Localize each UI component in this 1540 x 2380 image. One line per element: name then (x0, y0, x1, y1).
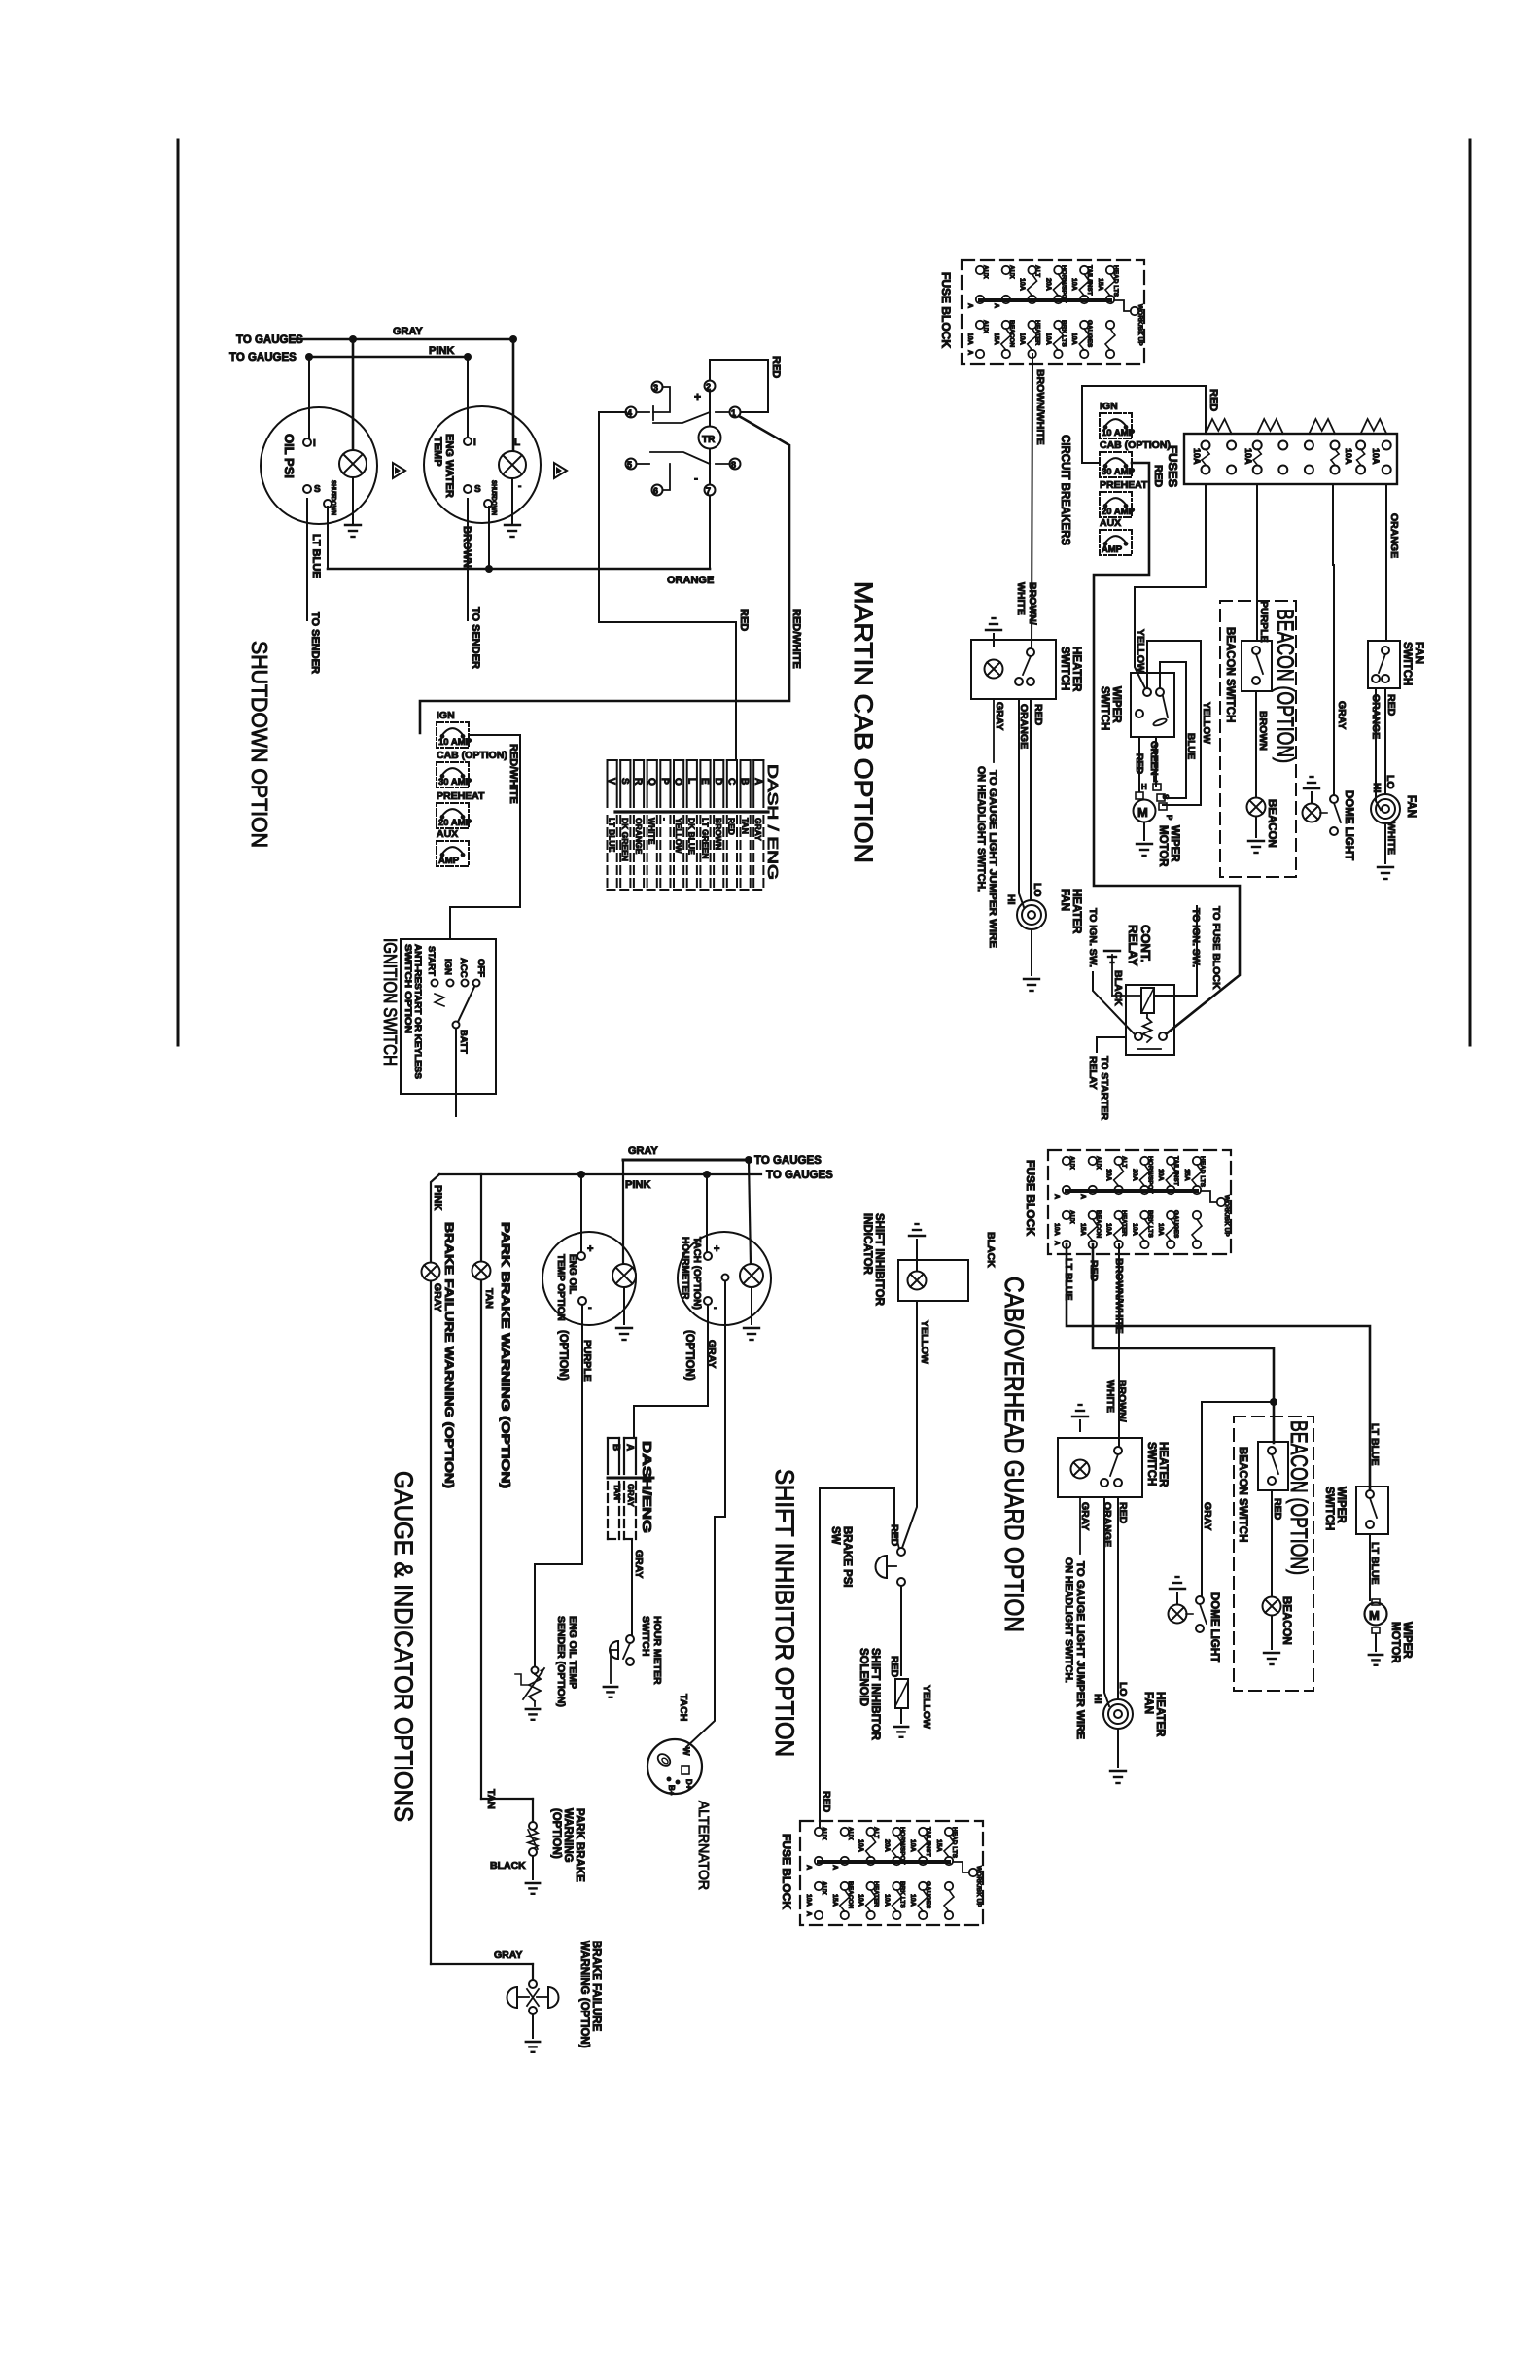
svg-text:BATT: BATT (458, 1030, 469, 1054)
svg-text:IGN: IGN (442, 959, 453, 975)
svg-text:+: + (714, 1243, 719, 1255)
svg-text:M: M (1369, 1608, 1380, 1623)
svg-text:AUX: AUX (821, 1827, 827, 1840)
svg-text:15A: 15A (1079, 1223, 1086, 1236)
svg-text:AMP: AMP (1102, 544, 1123, 555)
svg-text:AUX: AUX (1068, 1156, 1075, 1170)
svg-text:10A: 10A (1157, 1169, 1164, 1181)
svg-text:HEATER: HEATER (1070, 647, 1082, 692)
svg-text:I: I (473, 437, 476, 448)
svg-text:10 AMP: 10 AMP (1102, 428, 1136, 438)
svg-text:BROWN/: BROWN/ (1116, 1380, 1128, 1422)
svg-text:A: A (624, 1444, 635, 1451)
svg-text:20A: 20A (1044, 278, 1051, 291)
svg-text:(OPTION): (OPTION) (557, 1330, 569, 1381)
svg-text:GRAY: GRAY (1336, 701, 1347, 729)
svg-text:GRAY: GRAY (432, 1283, 443, 1312)
svg-text:HI: HI (1092, 1694, 1103, 1704)
svg-text:RELAY: RELAY (1087, 1056, 1099, 1090)
svg-text:WIPER: WIPER (1169, 825, 1180, 862)
svg-text:10A: 10A (1243, 448, 1253, 465)
svg-text:TO STARTER: TO STARTER (1099, 1056, 1110, 1121)
svg-text:CIRCUIT BREAKERS: CIRCUIT BREAKERS (1059, 435, 1073, 545)
svg-text:I: I (313, 438, 316, 449)
svg-text:SHUTDOWN: SHUTDOWN (330, 480, 336, 515)
svg-text:CAB (OPTION): CAB (OPTION) (1100, 439, 1171, 451)
svg-text:PARK BRAKE WARNING (OPTION): PARK BRAKE WARNING (OPTION) (499, 1222, 510, 1488)
svg-text:2: 2 (706, 382, 711, 392)
svg-text:10A: 10A (1105, 1223, 1112, 1236)
svg-text:YELLOW: YELLOW (919, 1320, 930, 1364)
svg-text:FUSE BLOCK: FUSE BLOCK (939, 272, 953, 348)
svg-text:GRAY: GRAY (494, 1949, 522, 1961)
svg-text:HEATER: HEATER (873, 1881, 880, 1907)
svg-text:BEACON (OPTION): BEACON (OPTION) (1285, 1420, 1312, 1575)
svg-text:-: - (714, 1302, 717, 1313)
svg-text:SHIFT INHIBITOR: SHIFT INHIBITOR (869, 1648, 881, 1741)
svg-text:D: D (713, 778, 723, 785)
svg-text:IGN: IGN (1100, 401, 1118, 412)
svg-text:HEATER: HEATER (1070, 889, 1082, 934)
svg-text:TO GAUGES: TO GAUGES (766, 1170, 833, 1181)
svg-text:YELLOW: YELLOW (921, 1685, 932, 1729)
svg-text:RED: RED (727, 818, 737, 835)
svg-text:SOLENOID: SOLENOID (857, 1648, 869, 1706)
svg-text:INDICATOR: INDICATOR (861, 1213, 873, 1276)
svg-text:RED: RED (1152, 465, 1164, 487)
svg-text:B: B (611, 1444, 621, 1451)
svg-text:TAN: TAN (740, 818, 750, 834)
svg-text:AUX: AUX (821, 1881, 827, 1895)
svg-text:15A: 15A (1097, 278, 1103, 291)
svg-text:BEACON: BEACON (1266, 799, 1277, 848)
svg-text:30 AMP: 30 AMP (1102, 467, 1136, 477)
svg-text:+: + (587, 1243, 593, 1255)
svg-text:AUX: AUX (1008, 265, 1015, 279)
svg-text:PURPLE: PURPLE (1258, 601, 1270, 643)
svg-text:(OPTION): (OPTION) (683, 1330, 695, 1381)
svg-text:BLACK: BLACK (490, 1860, 526, 1872)
svg-text:10A: 10A (909, 1894, 916, 1907)
svg-text:30 AMP: 30 AMP (438, 777, 472, 787)
svg-text:SHUTDOWN OPTION: SHUTDOWN OPTION (247, 641, 272, 848)
svg-text:L: L (685, 778, 696, 784)
svg-text:20A: 20A (1131, 1169, 1137, 1181)
svg-text:W: W (682, 1747, 691, 1756)
svg-text:TR: TR (702, 435, 716, 445)
svg-text:1: 1 (731, 408, 736, 418)
svg-text:TACH (OPTION): TACH (OPTION) (691, 1237, 702, 1310)
svg-text:ACC: ACC (458, 958, 469, 978)
svg-text:L: L (514, 437, 520, 448)
svg-text:RED/WHITE: RED/WHITE (507, 744, 519, 804)
svg-text:10A: 10A (1019, 332, 1026, 345)
svg-text:SWITCH: SWITCH (1323, 1487, 1335, 1530)
svg-text:TACH: TACH (678, 1694, 689, 1721)
svg-text:SENDER (OPTION): SENDER (OPTION) (555, 1616, 567, 1707)
svg-text:MOTOR: MOTOR (1157, 825, 1169, 867)
svg-text:HOURMETER: HOURMETER (680, 1237, 690, 1300)
svg-text:RED: RED (889, 1656, 900, 1678)
svg-text:20A: 20A (883, 1839, 890, 1852)
svg-text:GREEN: GREEN (1148, 741, 1159, 776)
svg-text:10A: 10A (1019, 278, 1026, 291)
svg-text:E: E (699, 778, 710, 785)
svg-text:ON HEADLIGHT SWITCH.: ON HEADLIGHT SWITCH. (1063, 1557, 1074, 1683)
svg-text:WHITE: WHITE (1015, 582, 1027, 615)
svg-text:WIPER: WIPER (1335, 1487, 1347, 1523)
svg-text:SWITCH: SWITCH (1401, 642, 1413, 685)
svg-text:ALTERNATOR: ALTERNATOR (695, 1801, 712, 1890)
svg-text:TO FUSE BLOCK: TO FUSE BLOCK (1210, 906, 1222, 990)
svg-text:A: A (1079, 1194, 1086, 1199)
svg-text:M: M (1137, 805, 1148, 820)
svg-text:YELLOW: YELLOW (1135, 629, 1146, 673)
svg-text:BEACON: BEACON (847, 1881, 854, 1908)
svg-text:SWITCH OPTION: SWITCH OPTION (403, 944, 413, 1033)
svg-text:TO IGN. SW.: TO IGN. SW. (1087, 908, 1099, 967)
svg-text:BROWN: BROWN (1257, 711, 1269, 751)
svg-text:A: A (831, 1865, 838, 1870)
svg-text:-: - (588, 1302, 592, 1313)
svg-text:A: A (993, 303, 999, 308)
svg-text:SWITCH: SWITCH (1145, 1442, 1157, 1486)
svg-text:WORK/BK UP: WORK/BK UP (1137, 304, 1143, 346)
svg-text:10A: 10A (1105, 1169, 1112, 1181)
svg-text:START: START (426, 946, 437, 976)
svg-text:R: R (633, 778, 644, 786)
svg-text:FAN: FAN (1405, 795, 1417, 818)
svg-text:RED: RED (1207, 389, 1219, 411)
svg-text:AUX: AUX (437, 828, 458, 840)
svg-text:AUX: AUX (1100, 517, 1121, 529)
svg-text:B: B (739, 778, 750, 785)
svg-text:BRAKE PSI: BRAKE PSI (841, 1526, 853, 1588)
svg-text:AUX: AUX (1095, 1156, 1102, 1170)
svg-text:L: L (1153, 775, 1158, 784)
svg-text:ENG OIL: ENG OIL (567, 1254, 577, 1294)
svg-text:BLACK: BLACK (985, 1232, 997, 1268)
svg-text:GRAY: GRAY (1202, 1502, 1213, 1530)
svg-text:10 AMP: 10 AMP (438, 737, 472, 748)
svg-text:TEMP OPTION: TEMP OPTION (555, 1254, 566, 1321)
svg-text:HOUR METER: HOUR METER (651, 1616, 663, 1685)
svg-text:RED: RED (1385, 694, 1397, 717)
svg-text:ORANGE: ORANGE (667, 575, 714, 586)
svg-text:-: - (660, 818, 670, 821)
svg-text:ORANGE: ORANGE (1102, 1502, 1113, 1547)
svg-text:8: 8 (731, 460, 736, 470)
svg-text:GRAY: GRAY (628, 1145, 658, 1157)
svg-text:S: S (1161, 794, 1170, 800)
svg-text:SWITCH: SWITCH (1059, 647, 1070, 690)
svg-text:10A: 10A (909, 1839, 916, 1852)
svg-text:TAIL/INST: TAIL/INST (925, 1827, 931, 1857)
svg-text:10A: 10A (1044, 332, 1051, 345)
svg-text:BROWN: BROWN (714, 818, 723, 850)
svg-text:LT BLUE: LT BLUE (1369, 1423, 1381, 1466)
svg-text:CAB/OVERHEAD GUARD OPTION: CAB/OVERHEAD GUARD OPTION (999, 1277, 1029, 1632)
svg-text:SWITCH: SWITCH (640, 1616, 651, 1656)
svg-text:RED/WHITE: RED/WHITE (790, 609, 802, 669)
svg-text:WORK/BK UP: WORK/BK UP (1223, 1195, 1230, 1237)
svg-text:BROWN/WHITE: BROWN/WHITE (1034, 369, 1046, 445)
svg-text:ORANGE: ORANGE (634, 818, 644, 855)
svg-text:PARK BRAKE: PARK BRAKE (574, 1808, 585, 1882)
svg-text:TEMP: TEMP (432, 437, 443, 467)
svg-text:SHIFT INHIBITOR: SHIFT INHIBITOR (873, 1213, 885, 1307)
svg-text:OFF: OFF (475, 959, 486, 977)
svg-text:WARNING (OPTION): WARNING (OPTION) (578, 1941, 590, 2048)
svg-text:20 AMP: 20 AMP (1102, 507, 1136, 517)
svg-text:ON HEADLIGHT SWITCH.: ON HEADLIGHT SWITCH. (975, 766, 987, 892)
svg-text:ANTI-RESTART OR KEYLESS: ANTI-RESTART OR KEYLESS (413, 944, 423, 1079)
svg-text:WORK/BK UP: WORK/BK UP (975, 1866, 982, 1907)
svg-text:AUX: AUX (982, 320, 989, 333)
svg-text:6: 6 (653, 486, 658, 496)
svg-text:DASH / ENG: DASH / ENG (764, 764, 781, 880)
svg-text:HEAD LTS: HEAD LTS (951, 1827, 958, 1859)
svg-text:+: + (694, 390, 701, 403)
svg-text:15A: 15A (831, 1894, 838, 1907)
svg-text:TAN: TAN (612, 1484, 622, 1500)
svg-text:BEACON SWITCH: BEACON SWITCH (1224, 627, 1236, 722)
svg-text:P: P (1165, 815, 1173, 821)
svg-text:-: - (694, 472, 698, 485)
svg-text:OIL PSI: OIL PSI (282, 434, 297, 478)
svg-text:ALT: ALT (873, 1827, 880, 1838)
svg-text:BRK LTS: BRK LTS (898, 1881, 905, 1908)
svg-text:BLACK: BLACK (1112, 970, 1124, 1006)
svg-text:LO: LO (1117, 1682, 1129, 1697)
svg-text:ORANGE: ORANGE (1388, 513, 1400, 558)
svg-text:FAN: FAN (1413, 642, 1424, 664)
svg-text:HORN/SPOT: HORN/SPOT (1146, 1156, 1153, 1194)
svg-text:10A: 10A (883, 1894, 890, 1907)
svg-text:A: A (805, 1911, 812, 1916)
svg-text:DOME LIGHT: DOME LIGHT (1343, 790, 1354, 860)
svg-text:P: P (659, 778, 670, 785)
svg-text:-: - (518, 481, 521, 492)
svg-text:A: A (966, 350, 973, 355)
svg-text:BRAKE FAILURE WARNING (OPTION): BRAKE FAILURE WARNING (OPTION) (442, 1222, 454, 1488)
svg-text:WHITE: WHITE (647, 818, 657, 845)
svg-text:LT BLUE: LT BLUE (607, 818, 616, 853)
svg-text:10A: 10A (1192, 448, 1202, 465)
svg-text:ENG WATER: ENG WATER (443, 434, 455, 498)
svg-text:RELAY: RELAY (1126, 925, 1140, 966)
svg-text:GRAY: GRAY (626, 1484, 636, 1507)
svg-text:LO: LO (1384, 775, 1396, 789)
svg-text:GAUGE & INDICATOR OPTIONS: GAUGE & INDICATOR OPTIONS (389, 1471, 418, 1822)
svg-text:WHITE: WHITE (1104, 1380, 1116, 1413)
svg-text:RED: RED (738, 609, 750, 631)
svg-text:GRAY: GRAY (994, 702, 1005, 730)
svg-text:HEAD LTS: HEAD LTS (1112, 265, 1119, 297)
svg-text:GRAY: GRAY (753, 818, 763, 841)
svg-text:AUX: AUX (847, 1827, 854, 1840)
svg-text:ALT: ALT (1121, 1156, 1128, 1168)
svg-text:PREHEAT: PREHEAT (437, 790, 485, 802)
svg-text:AUX: AUX (1068, 1210, 1075, 1224)
svg-text:TO IGN. SW.: TO IGN. SW. (1190, 908, 1202, 967)
svg-text:15A: 15A (1183, 1169, 1190, 1181)
svg-text:4: 4 (627, 408, 632, 418)
svg-text:RED: RED (1134, 753, 1144, 774)
svg-text:A: A (1053, 1194, 1060, 1199)
svg-text:RED: RED (821, 1791, 832, 1813)
svg-text:TO GAUGES: TO GAUGES (754, 1155, 822, 1167)
svg-text:SW: SW (829, 1526, 841, 1545)
svg-text:FAN: FAN (1059, 889, 1070, 911)
svg-text:BLUE: BLUE (1185, 733, 1196, 760)
svg-text:PINK: PINK (432, 1185, 443, 1210)
svg-text:BEACON (OPTION): BEACON (OPTION) (1272, 609, 1298, 763)
svg-text:HORN/SPOT: HORN/SPOT (1060, 265, 1067, 303)
svg-text:IGN: IGN (437, 710, 455, 721)
svg-text:TO GAUGE LIGHT JUMPER WIRE: TO GAUGE LIGHT JUMPER WIRE (1074, 1561, 1086, 1739)
svg-text:HEAD LTS: HEAD LTS (1199, 1156, 1206, 1188)
svg-text:SWITCH: SWITCH (1099, 686, 1110, 730)
svg-text:TO SENDER: TO SENDER (470, 607, 481, 669)
svg-text:CAB (OPTION): CAB (OPTION) (437, 750, 507, 761)
svg-text:FUSE BLOCK: FUSE BLOCK (1024, 1160, 1037, 1236)
svg-text:10A: 10A (1070, 332, 1077, 345)
svg-text:WARNING: WARNING (562, 1808, 574, 1863)
svg-text:HORN/SPOT: HORN/SPOT (898, 1827, 905, 1865)
svg-text:TAN: TAN (483, 1288, 495, 1309)
svg-text:ALT: ALT (1034, 265, 1041, 277)
svg-text:S: S (474, 484, 481, 495)
svg-text:HI: HI (1005, 894, 1017, 905)
svg-text:RED: RED (1032, 704, 1044, 726)
svg-text:C: C (726, 778, 737, 785)
svg-text:MOTOR: MOTOR (1389, 1622, 1401, 1663)
svg-text:MARTIN CAB OPTION: MARTIN CAB OPTION (849, 581, 878, 863)
svg-text:BRK LTS: BRK LTS (1060, 320, 1067, 347)
svg-text:GRAY: GRAY (393, 326, 423, 337)
svg-text:LT BLUE: LT BLUE (310, 534, 322, 578)
svg-text:10A: 10A (966, 332, 973, 345)
svg-text:(OPTION): (OPTION) (550, 1808, 562, 1859)
svg-text:3: 3 (653, 383, 658, 393)
svg-text:BRK LTS: BRK LTS (1146, 1210, 1153, 1238)
svg-text:A: A (1053, 1241, 1060, 1245)
svg-text:RED: RED (770, 356, 782, 378)
svg-text:AUX: AUX (982, 265, 989, 279)
svg-text:GAUGES: GAUGES (1172, 1210, 1179, 1239)
svg-text:10A: 10A (1157, 1223, 1164, 1236)
svg-text:S: S (314, 484, 321, 495)
svg-text:10A: 10A (1131, 1223, 1137, 1236)
svg-text:YELLOW: YELLOW (674, 818, 683, 854)
svg-text:WHITE: WHITE (1385, 822, 1397, 855)
svg-text:BEACON: BEACON (1280, 1596, 1292, 1645)
svg-text:YELLOW: YELLOW (1201, 702, 1211, 744)
svg-text:HEATER: HEATER (1157, 1442, 1169, 1487)
svg-text:DK BLUE: DK BLUE (687, 818, 697, 855)
svg-text:10A: 10A (857, 1894, 864, 1907)
svg-text:V: V (606, 778, 616, 785)
svg-text:10A: 10A (1070, 278, 1077, 291)
svg-text:HI: HI (1371, 783, 1382, 793)
svg-text:10A: 10A (1344, 448, 1353, 465)
svg-text:15A: 15A (935, 1839, 942, 1852)
svg-text:FUSE BLOCK: FUSE BLOCK (780, 1834, 793, 1909)
svg-text:HEATER: HEATER (1034, 320, 1041, 346)
svg-text:TO GAUGES: TO GAUGES (229, 352, 297, 364)
svg-text:LO: LO (1032, 883, 1043, 897)
svg-text:WIPER: WIPER (1110, 686, 1122, 723)
svg-text:A: A (805, 1865, 812, 1870)
svg-text:H: H (1141, 783, 1147, 791)
svg-text:A: A (966, 303, 973, 308)
svg-text:A: A (752, 778, 763, 785)
svg-text:BRAKE FAILURE: BRAKE FAILURE (590, 1941, 602, 2032)
svg-text:DOME LIGHT: DOME LIGHT (1208, 1592, 1220, 1662)
svg-text:BEACON: BEACON (1008, 320, 1015, 347)
svg-text:HEATER: HEATER (1121, 1210, 1128, 1237)
svg-text:S: S (619, 778, 630, 785)
svg-text:B+: B+ (667, 1785, 676, 1796)
svg-text:IGNITION SWITCH: IGNITION SWITCH (380, 938, 400, 1066)
svg-text:BEACON SWITCH: BEACON SWITCH (1237, 1447, 1248, 1542)
svg-text:TO GAUGE LIGHT JUMPER WIRE: TO GAUGE LIGHT JUMPER WIRE (987, 770, 998, 948)
svg-text:10A: 10A (1053, 1223, 1060, 1236)
svg-text:10A: 10A (805, 1894, 812, 1907)
svg-text:20 AMP: 20 AMP (438, 818, 472, 828)
svg-text:LT GREEN: LT GREEN (700, 818, 710, 858)
svg-text:Q: Q (646, 778, 656, 786)
svg-text:BROWN/: BROWN/ (1027, 582, 1038, 625)
svg-text:PREHEAT: PREHEAT (1100, 479, 1148, 491)
svg-text:SHUTDOWN: SHUTDOWN (490, 480, 497, 515)
svg-text:10A: 10A (1371, 448, 1381, 465)
svg-text:10A: 10A (857, 1839, 864, 1852)
svg-text:7: 7 (706, 486, 711, 496)
svg-text:15A: 15A (993, 332, 999, 345)
svg-text:DASH/ENG: DASH/ENG (640, 1441, 654, 1533)
svg-text:TAN: TAN (485, 1789, 497, 1809)
svg-text:LT BLUE: LT BLUE (1063, 1258, 1074, 1301)
svg-text:RED: RED (1272, 1498, 1283, 1521)
svg-text:HEATER: HEATER (1154, 1692, 1166, 1737)
svg-text:WIPER: WIPER (1401, 1622, 1413, 1659)
svg-text:AMP: AMP (438, 856, 460, 866)
svg-text:D+: D+ (684, 1779, 693, 1790)
svg-text:FUSES: FUSES (1166, 445, 1180, 488)
svg-text:FAN: FAN (1142, 1692, 1154, 1714)
svg-text:ENG OIL TEMP: ENG OIL TEMP (567, 1616, 578, 1689)
svg-text:O: O (673, 778, 683, 786)
svg-text:PINK: PINK (625, 1179, 650, 1191)
svg-text:5: 5 (627, 460, 632, 470)
svg-text:TAIL/INST: TAIL/INST (1086, 265, 1093, 296)
svg-text:BEACON: BEACON (1095, 1210, 1102, 1238)
svg-text:DK GREEN: DK GREEN (620, 818, 630, 861)
svg-text:TAIL/INST: TAIL/INST (1172, 1156, 1179, 1186)
svg-text:GAUGES: GAUGES (925, 1881, 931, 1909)
svg-text:GAUGES: GAUGES (1086, 320, 1093, 348)
svg-text:TO SENDER: TO SENDER (309, 612, 321, 674)
svg-text:PINK: PINK (429, 345, 454, 357)
svg-text:GRAY: GRAY (633, 1550, 645, 1578)
svg-text:SHIFT INHIBITOR OPTION: SHIFT INHIBITOR OPTION (770, 1469, 799, 1757)
